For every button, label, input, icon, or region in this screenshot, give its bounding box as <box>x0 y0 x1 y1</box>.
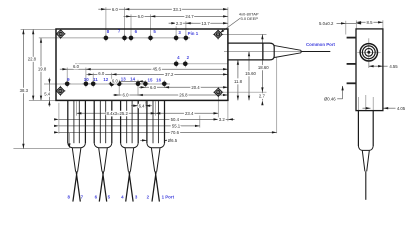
svg-text:5.0±0.2: 5.0±0.2 <box>319 21 334 26</box>
svg-text:24.7: 24.7 <box>185 14 194 19</box>
svg-text:12: 12 <box>103 77 108 82</box>
svg-text:5: 5 <box>108 194 111 199</box>
svg-text:22.8: 22.8 <box>28 56 37 61</box>
svg-text:2.7: 2.7 <box>259 93 266 98</box>
svg-text:16: 16 <box>156 78 161 83</box>
svg-text:Pin 1: Pin 1 <box>188 31 199 36</box>
svg-text:13.7: 13.7 <box>201 21 210 26</box>
svg-text:6.0: 6.0 <box>138 14 145 19</box>
svg-text:6: 6 <box>95 194 98 199</box>
svg-text:18.60: 18.60 <box>258 65 269 70</box>
svg-text:33.1: 33.1 <box>173 7 182 12</box>
svg-text:4: 4 <box>121 194 124 199</box>
svg-text:1 Port: 1 Port <box>162 194 175 199</box>
svg-text:55.1: 55.1 <box>172 123 181 128</box>
svg-text:13: 13 <box>121 77 126 82</box>
svg-text:6.4: 6.4 <box>139 103 146 108</box>
svg-text:3.2: 3.2 <box>219 117 226 122</box>
svg-text:50.4: 50.4 <box>171 117 180 122</box>
svg-text:4: 4 <box>177 55 180 60</box>
svg-text:15.60: 15.60 <box>245 71 256 76</box>
svg-text:19.8: 19.8 <box>38 67 47 72</box>
svg-text:2: 2 <box>187 55 190 60</box>
svg-text:9: 9 <box>67 77 70 82</box>
svg-text:5.4: 5.4 <box>44 91 51 96</box>
svg-text:Ø0.46: Ø0.46 <box>324 96 336 101</box>
svg-text:6.0: 6.0 <box>73 64 80 69</box>
svg-text:4.05: 4.05 <box>397 106 406 111</box>
svg-text:Common Port: Common Port <box>306 42 336 47</box>
svg-text:37.2: 37.2 <box>165 72 174 77</box>
svg-text:8.5: 8.5 <box>367 20 374 25</box>
svg-text:14: 14 <box>130 77 135 82</box>
svg-text:11: 11 <box>93 77 98 82</box>
svg-text:6.0: 6.0 <box>98 71 105 76</box>
svg-text:38.3: 38.3 <box>20 88 29 93</box>
svg-text:6.0: 6.0 <box>112 7 119 12</box>
svg-text:4.55: 4.55 <box>389 64 398 69</box>
svg-text:23.4: 23.4 <box>185 111 194 116</box>
svg-text:70.6: 70.6 <box>171 130 180 135</box>
svg-text:3: 3 <box>178 30 181 35</box>
svg-text:7: 7 <box>81 194 84 199</box>
svg-text:10: 10 <box>84 77 89 82</box>
svg-text:2.3: 2.3 <box>176 21 183 26</box>
svg-text:6.0: 6.0 <box>112 79 119 84</box>
svg-text:8: 8 <box>67 194 70 199</box>
svg-text:6.0: 6.0 <box>123 93 130 98</box>
svg-text:20.4: 20.4 <box>191 85 200 90</box>
svg-text:3: 3 <box>135 194 138 199</box>
svg-text:45.6: 45.6 <box>153 66 162 71</box>
svg-text:6: 6 <box>135 29 138 34</box>
svg-text:2: 2 <box>147 194 150 199</box>
svg-text:8.4x3=25.2: 8.4x3=25.2 <box>107 111 129 116</box>
svg-text:Ø6.5: Ø6.5 <box>168 138 178 143</box>
svg-text:3.0 DEEP: 3.0 DEEP <box>241 16 259 21</box>
svg-text:15: 15 <box>148 78 153 83</box>
svg-text:11.8: 11.8 <box>234 79 243 84</box>
svg-text:6.0: 6.0 <box>150 85 157 90</box>
svg-text:26.8: 26.8 <box>179 93 188 98</box>
